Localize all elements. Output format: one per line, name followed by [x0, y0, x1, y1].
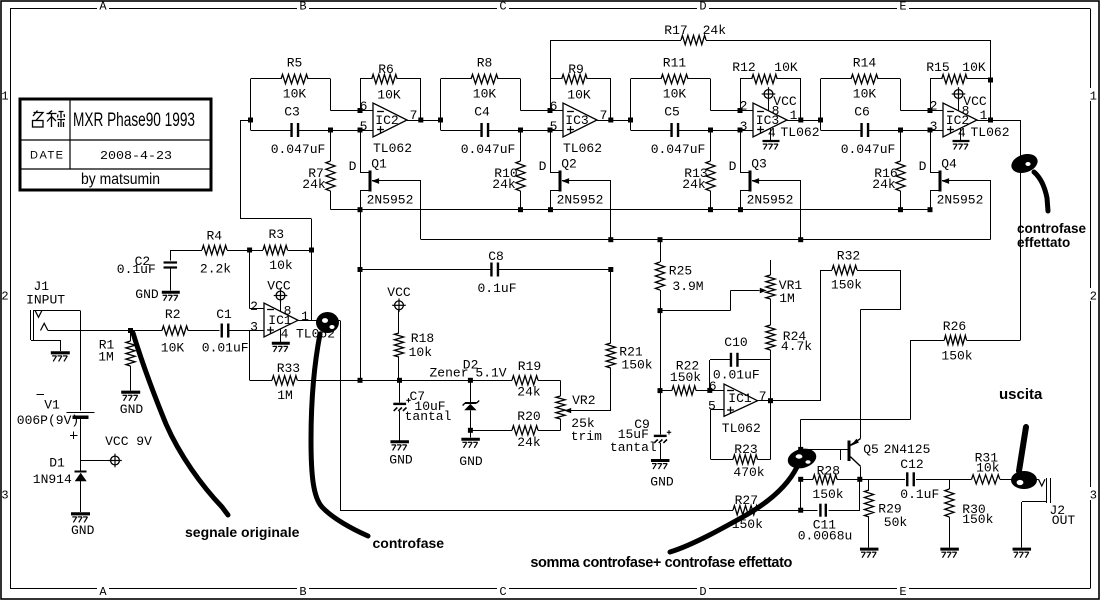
svg-text:0.01uF: 0.01uF	[713, 367, 760, 382]
svg-text:TL062: TL062	[563, 141, 602, 156]
svg-text:A: A	[99, 585, 107, 599]
power flag VCC (R18)	[392, 299, 406, 334]
svg-text:0.047uF: 0.047uF	[841, 142, 896, 157]
R13 labels	[682, 166, 707, 192]
Q4 labels	[919, 157, 984, 208]
svg-text:10k: 10k	[976, 461, 1000, 476]
svg-text:470k: 470k	[733, 465, 764, 480]
svg-text:Q5: Q5	[863, 442, 879, 457]
svg-text:4: 4	[958, 125, 966, 140]
svg-text:6: 6	[709, 379, 717, 394]
svg-text:TL062: TL062	[780, 125, 819, 140]
wire (C8 line)	[360, 269, 611, 271]
capacitor C8 0.1uF	[491, 263, 498, 277]
node (stage2 input)	[438, 118, 443, 123]
svg-text:0.047uF: 0.047uF	[651, 142, 706, 157]
title kanji 名称	[33, 111, 66, 128]
svg-text:R18: R18	[411, 331, 434, 346]
svg-text:50k: 50k	[884, 515, 908, 530]
wire (Q3 gate drop)	[800, 181, 802, 240]
wire (output to stage1 feed)	[241, 120, 312, 320]
node (C4 right / pins)	[518, 108, 553, 133]
svg-text:GND: GND	[135, 287, 159, 302]
node (C5 right / pins)	[708, 108, 743, 133]
svg-text:R25: R25	[669, 264, 692, 279]
source bus junctions	[358, 207, 933, 212]
svg-text:10K: 10K	[853, 87, 877, 102]
svg-text:0.1uF: 0.1uF	[900, 487, 939, 502]
svg-text:10K: 10K	[567, 88, 591, 103]
svg-text:7: 7	[759, 389, 767, 404]
op-amp IC2 (stage 4)	[943, 103, 977, 137]
svg-text:C12: C12	[900, 457, 923, 472]
R15 labels	[926, 60, 986, 75]
wire (R20 line)	[470, 419, 560, 431]
resistor R10 24k	[516, 161, 525, 191]
svg-text:D: D	[349, 159, 357, 174]
wire (IC1 output)	[298, 320, 340, 322]
C2 labels	[117, 254, 156, 277]
svg-text:10k: 10k	[409, 345, 433, 360]
ground (R29)	[860, 549, 879, 558]
ground (J2)	[1013, 549, 1032, 558]
resistor R20 24k	[512, 426, 538, 435]
J1 labels	[26, 279, 65, 307]
node (C11 left)	[798, 508, 803, 513]
svg-text:IC2: IC2	[375, 113, 398, 128]
node (Q5 base)	[798, 447, 803, 452]
J2 labels	[1049, 503, 1075, 528]
R30 labels	[962, 502, 993, 527]
R28 labels	[812, 464, 843, 503]
power flag VCC (stage 3)	[762, 87, 776, 111]
svg-text:R8: R8	[477, 56, 493, 71]
title text	[30, 110, 195, 188]
IC1 labels	[250, 299, 335, 342]
resistor R29 50k	[864, 479, 873, 547]
transistor Q2 2N5952	[560, 170, 611, 191]
svg-text:R6: R6	[378, 62, 394, 77]
op-amp IC3 (stage 2)	[563, 103, 597, 137]
svg-text:R14: R14	[853, 56, 877, 71]
svg-text:2: 2	[1090, 290, 1097, 304]
node (stage3 input)	[628, 118, 633, 123]
wire (source bus)	[331, 209, 931, 211]
transistor Q4 2N5952	[940, 170, 991, 191]
svg-text:2N5952: 2N5952	[747, 193, 794, 208]
svg-text:10K: 10K	[377, 88, 401, 103]
svg-text:E: E	[899, 585, 906, 599]
wire (Q1 drain)	[360, 130, 369, 173]
svg-text:C10: C10	[724, 335, 747, 350]
svg-text:tantal: tantal	[405, 409, 452, 424]
R10 labels	[492, 166, 517, 192]
wire (C5 line)	[631, 120, 754, 131]
ground (D2)	[461, 439, 480, 448]
wire (R27/C11 line)	[340, 479, 860, 510]
capacitor C7 10uF tantal	[393, 380, 410, 440]
svg-text:R9: R9	[568, 62, 584, 77]
svg-text:24k: 24k	[302, 177, 326, 192]
svg-text:E: E	[899, 0, 906, 14]
svg-text:0.1uF: 0.1uF	[477, 281, 516, 296]
svg-text:3.9M: 3.9M	[672, 279, 703, 294]
svg-text:150k: 150k	[812, 487, 843, 502]
wire (Q3 drain)	[740, 130, 749, 173]
svg-text:DATE: DATE	[30, 150, 65, 162]
VR2 labels	[571, 393, 602, 444]
wire (R5 right to pin)	[308, 79, 373, 111]
R3 labels	[268, 227, 292, 273]
capacitor C12 0.1uF	[907, 472, 914, 486]
svg-text:R19: R19	[518, 359, 541, 374]
op-amp IC1 (input buffer)	[264, 303, 298, 337]
R6 labels	[377, 62, 401, 103]
svg-text:R15: R15	[926, 60, 949, 75]
wire (R13 leads)	[710, 130, 712, 210]
svg-text:C: C	[499, 0, 506, 14]
gate bus junctions	[608, 237, 803, 242]
svg-text:VCC: VCC	[963, 94, 987, 109]
svg-text:150k: 150k	[941, 349, 972, 364]
svg-text:1M: 1M	[277, 388, 293, 403]
node (C9/R22)	[658, 388, 663, 393]
capacitor C4 0.047uF	[482, 123, 489, 137]
svg-text:5: 5	[550, 119, 558, 134]
svg-text:R32: R32	[837, 248, 860, 263]
capacitor C6 0.047uF	[862, 123, 869, 137]
svg-text:trim: trim	[571, 429, 602, 444]
wire (IC1b output)	[758, 400, 821, 402]
svg-text:3: 3	[1090, 489, 1097, 503]
svg-text:0.01uF: 0.01uF	[202, 340, 249, 355]
resistor R1	[126, 333, 135, 391]
svg-text:MXR Phase90 1993: MXR Phase90 1993	[73, 110, 195, 131]
node (D2/R20)	[468, 428, 473, 433]
wire (zener line)	[360, 380, 561, 396]
R5 labels	[283, 56, 307, 102]
wire (stage 4 output)	[977, 120, 1020, 122]
wire (R9 leads)	[550, 79, 611, 121]
svg-text:D: D	[919, 159, 927, 174]
wire (R4 line)	[170, 250, 311, 252]
resistor R24 4.7k	[766, 299, 775, 401]
svg-text:6: 6	[550, 99, 558, 114]
svg-text:Q1: Q1	[371, 157, 387, 172]
GND label (C9)	[650, 475, 674, 490]
svg-text:GND: GND	[459, 454, 483, 469]
wire (VR2 wiper)	[567, 368, 611, 411]
capacitor C5 0.047uF	[672, 123, 679, 137]
svg-text:3: 3	[1, 489, 8, 503]
transistor Q5 2N4125	[849, 439, 861, 480]
svg-text:Q3: Q3	[751, 157, 767, 172]
svg-text:4.7k: 4.7k	[781, 339, 812, 354]
connector J1 INPUT	[31, 310, 81, 351]
ground (C7)	[390, 442, 409, 451]
svg-text:C3: C3	[284, 105, 300, 120]
resistor R9 10K	[562, 74, 588, 83]
annotation controfase effettato	[1009, 151, 1087, 250]
resistor R11 10K	[661, 74, 688, 83]
C7 labels	[405, 389, 452, 424]
VCC 9V label	[105, 434, 152, 449]
resistor R2	[162, 326, 188, 335]
R14 labels	[853, 56, 877, 102]
wire (R12 leads)	[740, 79, 801, 121]
Q2 labels	[539, 157, 604, 208]
ground (stage 3 pin4)	[763, 128, 780, 150]
svg-text:Q2: Q2	[561, 157, 577, 172]
svg-text:D: D	[699, 585, 706, 599]
svg-text:VR2: VR2	[572, 393, 595, 408]
R8 labels	[473, 56, 497, 102]
wire (Q2 source)	[550, 190, 559, 210]
resistor R19 24k	[512, 376, 538, 385]
R22 labels	[670, 359, 701, 386]
wire (x360 vertical)	[360, 210, 362, 381]
resistor R22 150k	[672, 386, 696, 395]
svg-text:GND: GND	[120, 402, 144, 417]
node (zener line)	[358, 378, 473, 383]
svg-text:2: 2	[930, 99, 938, 114]
svg-text:controfase: controfase	[373, 535, 445, 551]
R27 labels	[732, 493, 763, 532]
resistor R4 2.2k	[202, 245, 227, 254]
wire (C1 to IC1 pin3)	[228, 330, 264, 332]
resistor R28 150k	[813, 475, 837, 484]
wire (C4 line)	[441, 120, 564, 131]
node (pin6 IC1b)	[707, 388, 712, 393]
R25 labels	[669, 264, 704, 295]
capacitor C2 0.1uF	[164, 250, 178, 291]
resistor R16 24k	[896, 161, 905, 191]
svg-text:4: 4	[281, 327, 289, 342]
wire (C3 line)	[251, 120, 374, 131]
svg-text:24k: 24k	[492, 177, 516, 192]
wire (C6 line)	[821, 120, 944, 131]
node (stage 2 out)	[608, 118, 613, 123]
svg-text:10K: 10K	[283, 87, 307, 102]
potentiometer VR1 1M	[760, 260, 775, 299]
svg-text:OUT: OUT	[1052, 513, 1076, 528]
GND label (R1)	[120, 402, 144, 417]
wire (Q2 gate drop)	[610, 181, 612, 240]
capacitor C3 0.047uF	[292, 123, 299, 137]
annotation controfase	[311, 312, 444, 551]
svg-text:B: B	[299, 0, 306, 14]
svg-text:VCC: VCC	[387, 285, 411, 300]
C6 labels	[841, 105, 896, 157]
svg-text:R11: R11	[663, 56, 687, 71]
wire (R26 to Q5 base)	[801, 340, 911, 449]
node (stage 1 out)	[418, 118, 423, 123]
svg-text:0.1uF: 0.1uF	[117, 262, 156, 277]
svg-text:VCC 9V: VCC 9V	[105, 434, 152, 449]
annotation uscita	[999, 386, 1043, 489]
wire (Q2 drain)	[550, 130, 559, 173]
wire (R15 leads)	[930, 79, 991, 121]
wire (VCC branch)	[81, 460, 109, 462]
node (stage1 input)	[248, 118, 253, 123]
node (sum)	[798, 477, 862, 482]
resistor R32 150k	[821, 265, 902, 400]
IC1b labels	[708, 379, 767, 436]
node (input/R1)	[128, 328, 133, 333]
svg-text:0.047uF: 0.047uF	[271, 142, 326, 157]
C4 labels	[461, 105, 516, 157]
svg-text:2.2k: 2.2k	[200, 262, 231, 277]
annotation somma controfase	[530, 446, 818, 571]
D2 labels	[429, 358, 506, 381]
R24 labels	[781, 329, 812, 354]
wire (Q3 source)	[740, 190, 749, 210]
svg-text:C1: C1	[216, 307, 232, 322]
R21 labels	[619, 345, 652, 373]
svg-text:segnale originale: segnale originale	[185, 524, 300, 540]
resistor R6 10K	[372, 74, 398, 83]
C9 labels	[610, 417, 657, 455]
ground (J1)	[51, 353, 70, 362]
svg-text:IC1: IC1	[728, 391, 752, 406]
svg-text:10K: 10K	[962, 60, 986, 75]
svg-text:VCC: VCC	[773, 94, 797, 109]
wire (wiper line to VR1)	[660, 291, 760, 311]
resistor R14 10K	[851, 74, 878, 83]
svg-text:GND: GND	[389, 453, 413, 468]
svg-text:D: D	[539, 159, 547, 174]
node (C3 right / pins)	[328, 108, 363, 133]
svg-text:GND: GND	[71, 523, 95, 538]
R16 labels	[872, 166, 897, 192]
svg-text:1: 1	[1, 90, 8, 104]
node (stage 3 out)	[798, 118, 803, 123]
transistor Q1 2N5952	[370, 170, 421, 191]
resistor R25 3.9M	[655, 240, 664, 311]
node (stage 4 out)	[988, 118, 993, 123]
power flag VCC (IC1)	[274, 289, 288, 312]
svg-text:IC3: IC3	[565, 113, 588, 128]
svg-text:R5: R5	[287, 56, 303, 71]
wire (R16 leads)	[900, 130, 902, 210]
IC2 labels (stage 1)	[360, 99, 418, 156]
connector J2 OUT	[1022, 478, 1051, 548]
R33 labels	[277, 361, 300, 403]
ground (IC1 pin4)	[272, 329, 290, 352]
svg-text:GND: GND	[650, 475, 674, 490]
wire (controfase drop)	[340, 320, 342, 510]
C10 labels	[713, 335, 760, 383]
R18 labels	[409, 331, 435, 360]
svg-text:somma controfase+ controfase e: somma controfase+ controfase effettato	[530, 555, 792, 571]
resistor R27 150k	[733, 506, 758, 515]
svg-text:10K: 10K	[473, 87, 497, 102]
wire (input signal)	[48, 330, 220, 332]
ground (R1)	[121, 392, 140, 401]
svg-text:by matsumin: by matsumin	[81, 171, 160, 188]
R29 labels	[878, 502, 907, 530]
capacitor C10 0.01uF	[710, 353, 771, 391]
wire (sum line)	[801, 479, 1039, 481]
svg-text:3: 3	[740, 119, 748, 134]
IC3 labels (stage 3)	[740, 94, 820, 141]
svg-text:10k: 10k	[269, 258, 293, 273]
svg-text:TL062: TL062	[373, 141, 412, 156]
wire (base lead)	[801, 449, 848, 459]
resistor R15 10K	[942, 74, 968, 83]
svg-text:150k: 150k	[670, 370, 701, 385]
R4 labels	[200, 229, 231, 277]
resistor R3 10k	[263, 245, 288, 254]
GND label (C2)	[135, 287, 159, 302]
svg-text:VCC: VCC	[267, 279, 291, 294]
wire (R3 node to pin2)	[250, 250, 265, 309]
wire (J1 tip to battery)	[80, 310, 82, 410]
svg-text:R17: R17	[664, 23, 687, 38]
svg-text:C4: C4	[474, 105, 490, 120]
svg-text:R4: R4	[206, 229, 222, 244]
node (C8 ends)	[358, 267, 614, 272]
node (IC1b out)	[768, 398, 773, 403]
R9 labels	[567, 62, 591, 103]
wire (Q1 gate drop)	[420, 181, 422, 240]
svg-text:R3: R3	[268, 227, 284, 242]
D1 labels	[33, 455, 72, 487]
wire (R10 leads)	[520, 130, 522, 210]
wire (Q4 source)	[930, 190, 939, 210]
svg-text:24k: 24k	[872, 177, 896, 192]
wire (R25 to C9 node)	[660, 311, 662, 391]
C12 labels	[900, 457, 939, 502]
C1 labels	[202, 307, 249, 355]
svg-text:TL062: TL062	[970, 125, 1009, 140]
svg-text:uscita: uscita	[999, 386, 1043, 403]
Q1 labels	[349, 157, 414, 208]
R23 labels	[733, 442, 764, 480]
svg-text:10K: 10K	[663, 87, 687, 102]
svg-text:A: A	[99, 0, 107, 14]
C3 labels	[271, 105, 326, 157]
svg-text:0.0068u: 0.0068u	[798, 529, 853, 544]
IC2 labels (stage 4)	[930, 94, 1010, 141]
resistor R23 470k	[711, 401, 771, 464]
svg-text:D: D	[699, 0, 706, 14]
svg-text:2N5952: 2N5952	[557, 193, 604, 208]
svg-text:tantal: tantal	[610, 440, 657, 455]
resistor R33 1M	[272, 376, 297, 385]
resistor R5 10K	[281, 74, 308, 83]
svg-text:1M: 1M	[779, 291, 795, 306]
wire (stage4 out down)	[1020, 120, 1022, 340]
ground (C9)	[651, 461, 670, 470]
svg-text:5.1V: 5.1V	[475, 365, 506, 380]
svg-text:006P(9V): 006P(9V)	[17, 413, 79, 428]
diode D2 Zener 5.1V	[463, 380, 480, 428]
svg-text:2N5952: 2N5952	[367, 193, 414, 208]
resistor R21 150k	[606, 270, 615, 369]
svg-text:B: B	[299, 585, 306, 599]
ground (C2)	[162, 292, 180, 301]
GND label (D1)	[71, 523, 95, 538]
svg-text:2N5952: 2N5952	[937, 193, 984, 208]
op-amp IC3 (stage 3)	[753, 103, 787, 137]
capacitor C11 0.0068u	[820, 504, 825, 517]
svg-text:150k: 150k	[621, 358, 652, 373]
svg-text:R28: R28	[817, 464, 840, 479]
svg-text:2N4125: 2N4125	[884, 442, 931, 457]
svg-text:Q4: Q4	[941, 157, 957, 172]
VR1 labels	[779, 278, 803, 306]
